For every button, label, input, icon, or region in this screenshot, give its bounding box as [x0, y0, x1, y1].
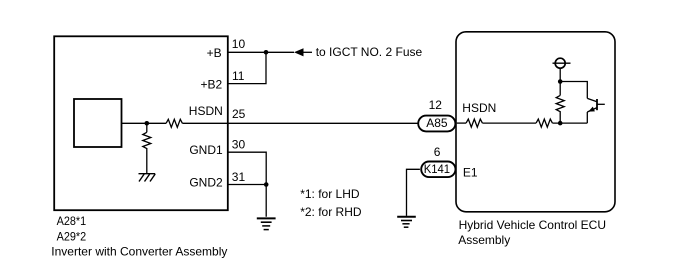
svg-text:30: 30	[232, 137, 246, 151]
svg-text:Hybrid Vehicle Control ECU: Hybrid Vehicle Control ECU	[459, 218, 606, 232]
svg-text:A29*2: A29*2	[57, 230, 87, 244]
svg-text:10: 10	[232, 37, 246, 51]
svg-text:HSDN: HSDN	[189, 104, 223, 118]
svg-text:A85: A85	[426, 116, 448, 130]
svg-text:E1: E1	[463, 166, 478, 180]
svg-text:31: 31	[232, 170, 246, 184]
svg-text:K141: K141	[424, 162, 451, 176]
svg-text:6: 6	[434, 145, 441, 159]
svg-text:GND2: GND2	[189, 175, 223, 189]
svg-text:*2: for RHD: *2: for RHD	[300, 205, 362, 219]
svg-text:25: 25	[232, 107, 246, 121]
svg-text:to IGCT NO. 2 Fuse: to IGCT NO. 2 Fuse	[316, 45, 423, 59]
svg-text:+B2: +B2	[201, 77, 223, 91]
svg-text:HSDN: HSDN	[462, 101, 496, 115]
svg-text:GND1: GND1	[189, 143, 223, 157]
svg-text:11: 11	[232, 69, 245, 83]
svg-text:12: 12	[429, 98, 443, 112]
svg-text:*1: for LHD: *1: for LHD	[300, 187, 360, 201]
svg-text:Assembly: Assembly	[458, 233, 510, 247]
svg-text:+B: +B	[207, 46, 222, 60]
svg-text:Inverter with Converter Assemb: Inverter with Converter Assembly	[51, 245, 227, 259]
svg-text:A28*1: A28*1	[57, 214, 87, 228]
